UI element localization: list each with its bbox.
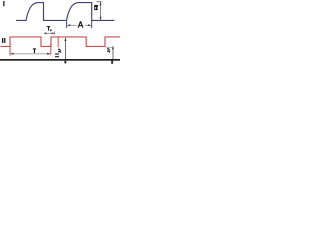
wire: T-dim left extension (red) (9, 47, 11, 56)
wire: low-level extension (gray) (106, 46, 113, 48)
label Us (rotated U) (58, 49, 60, 51)
label B (rotated) (94, 5, 98, 10)
axis time (0, 59, 120, 61)
dimension Us line (64, 38, 66, 60)
label I (3, 1, 4, 6)
wire: A-dim left extension (66, 21, 68, 28)
label Ta (47, 26, 52, 31)
dimension B line (100, 2, 102, 20)
dimension Ta arrow (44, 32, 54, 34)
wire: red tick under high level at x=58 (57, 37, 59, 47)
label A (78, 21, 83, 27)
dimension A arrow (67, 24, 76, 26)
node Us axis tick (64, 61, 66, 64)
waveform I pulse 2 (zoomed) (67, 3, 115, 21)
node equals mark (55, 53, 59, 54)
node Uo axis tick (111, 61, 113, 64)
waveform I pulse 1 (16, 3, 67, 21)
background (0, 0, 120, 65)
label T (33, 48, 36, 53)
wire: T-dim right extension (red) (50, 44, 52, 55)
label II (2, 38, 3, 43)
dimension T arrow (10, 53, 50, 55)
wire: B-dim top tick (97, 1, 102, 3)
label Uo (rotated U) (107, 49, 109, 51)
wire: A-dim right extension (fall edge extended) (91, 21, 93, 28)
waveform II square wave (1, 37, 121, 47)
dimension Uo line (112, 46, 114, 59)
